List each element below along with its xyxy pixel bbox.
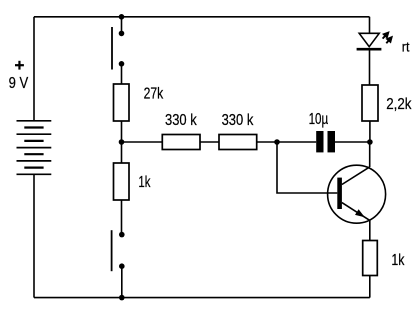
svg-text:330 k: 330 k [222,112,255,129]
wire resistor 1k left to switch S2 [121,200,123,235]
switch S1 (push button, top) [112,27,124,70]
svg-text:1k: 1k [391,252,404,269]
node B junction [274,139,280,145]
battery B1 9V [17,121,52,175]
wire resistor 1k right to bottom rail [369,276,371,298]
svg-text:1k: 1k [138,174,150,191]
wire left rail upper [33,17,35,121]
node junction on top rail [119,14,125,20]
wire between 330k resistors [200,141,219,143]
wire capacitor C1 to node C [335,141,370,143]
svg-text:10µ: 10µ [309,111,329,128]
svg-text:2,2k: 2,2k [386,96,412,113]
wire transistor emitter to resistor 1k right [369,220,371,240]
switch S2 (push button, bottom) [112,230,125,271]
wire node B down to transistor base [277,142,337,193]
wire node C down to transistor collector [369,142,371,167]
capacitor C1 10µ [316,131,335,152]
wire left rail lower [33,174,35,297]
wire bottom rail [34,297,370,299]
wire resistor 330k #2 to node B [257,141,277,143]
wire switch S2 to bottom rail [121,266,123,297]
wire resistor 2,2k to node C [369,121,371,142]
wire node A to resistor 330k #1 [122,141,163,143]
svg-text:9 V: 9 V [9,75,29,92]
resistor R1 27k [114,84,130,121]
resistor R5 2,2k [362,85,378,121]
resistor R3 330 k [162,135,200,150]
label + (battery positive) [15,61,24,70]
wire top rail [34,16,370,18]
wire switch S1 to resistor 27k [121,64,123,84]
wire resistor 27k to node A [121,121,123,163]
transistor Q1 [328,165,386,223]
svg-text:330 k: 330 k [165,112,198,129]
wire LED cathode to resistor 2,2k [369,49,371,85]
wire right rail top (to LED) [369,17,371,34]
svg-text:27k: 27k [144,86,164,103]
node A junction [119,139,125,145]
wire switch S1 top stub [121,17,123,34]
resistor R2 1k left [114,163,130,200]
node junction on bottom rail [119,295,125,301]
svg-text:rt: rt [402,39,410,54]
node C junction [367,139,373,145]
LED D1 [357,33,382,49]
resistor R4 330 k [219,135,257,150]
resistor R6 1k right [363,241,378,276]
wire node B to capacitor C1 [277,141,316,143]
LED emission arrows [383,33,392,44]
